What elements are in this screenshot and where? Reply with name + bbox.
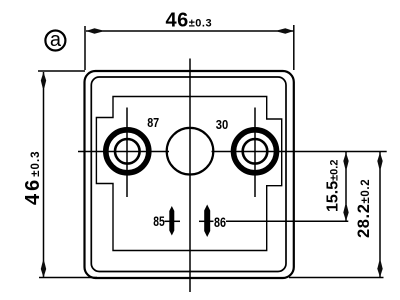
- svg-text:85: 85: [153, 214, 165, 229]
- svg-text:86: 86: [214, 215, 226, 230]
- svg-text:a: a: [50, 29, 62, 51]
- svg-text:87: 87: [147, 115, 159, 130]
- svg-text:30: 30: [216, 117, 229, 132]
